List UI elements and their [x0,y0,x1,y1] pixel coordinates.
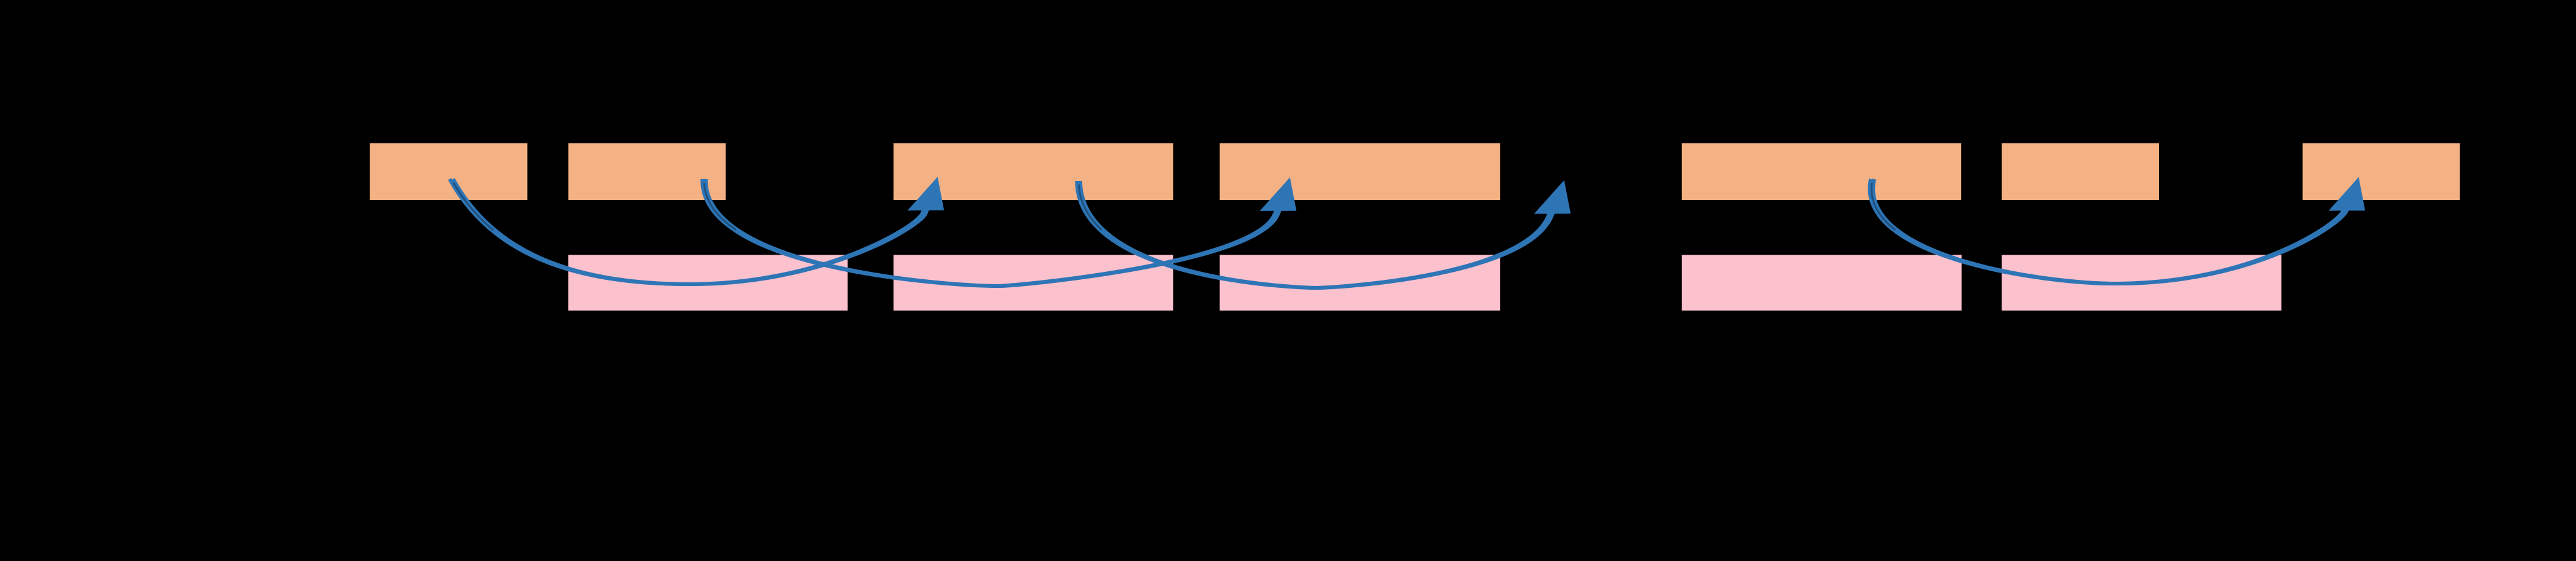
orange source span bar 7 [2303,143,2460,200]
arrow A2 (bar2 -> bar4) curve [702,179,1283,286]
pink target span bar 3 [1220,255,1500,311]
pink target span bar 2 [894,255,1173,311]
pink target span bar 5 [2002,255,2281,311]
arrow A1 (bar1 -> bar3) curve [450,179,931,284]
arrow A2 (bar2 -> bar4) head [1260,177,1297,211]
orange source span bar 6 [2002,143,2159,200]
orange source span bar 2 [568,143,726,200]
arrow A3 (bar3 -> gap after bar4) head [1534,180,1571,214]
arrow A4 (bar5 -> bar7) curve [1869,179,2351,284]
arrow A3 (bar3 -> gap after bar4) curve [1077,181,1557,288]
pink target span bar 1 [568,255,847,311]
arrow A4 (bar5 -> bar7) head [2329,177,2366,211]
orange source span bar 3 [894,143,1173,200]
orange source span bar 5 [1682,143,1961,200]
orange source span bar 4 [1220,143,1500,200]
orange source span bar 1 [370,143,528,200]
pink target span bar 4 [1682,255,1962,311]
arrow A1 (bar1 -> bar3) head [908,177,945,211]
